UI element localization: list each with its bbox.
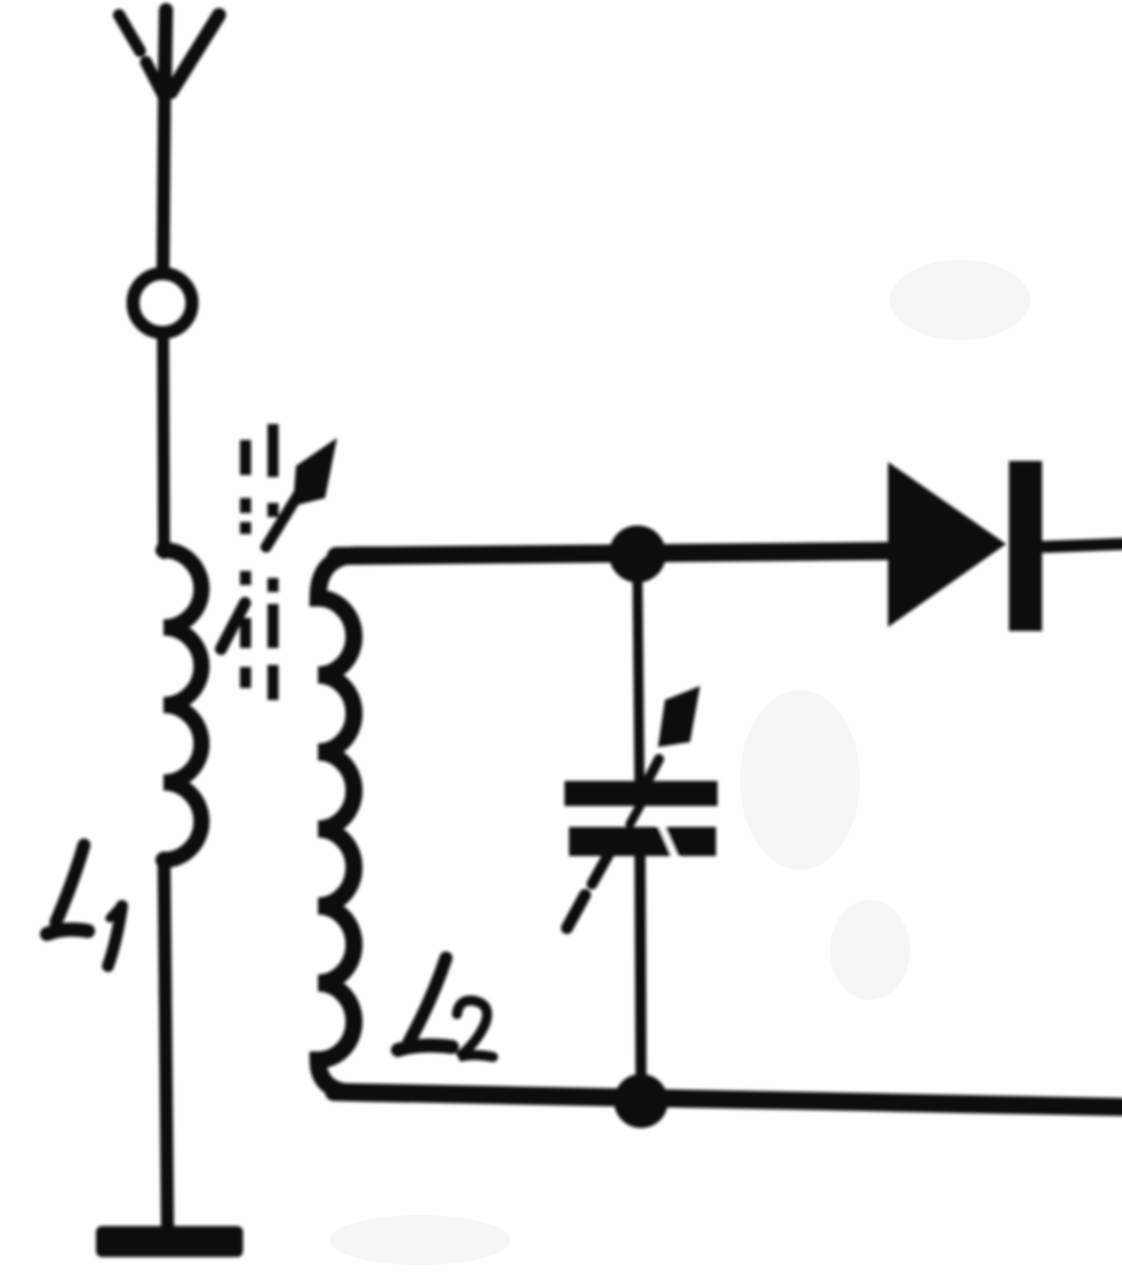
junction node top [609, 526, 666, 583]
wire L1 to ground [164, 858, 168, 1229]
terminal circle [133, 274, 192, 333]
diode VD cathode bar [1009, 461, 1042, 631]
capacitor arrow [567, 686, 700, 928]
coupling core dashed line left [240, 440, 251, 688]
coupling core dashed line right [268, 424, 279, 700]
coupling arrow [221, 438, 337, 649]
inductor L1 [164, 550, 202, 860]
capacitor C bottom plate [569, 827, 716, 856]
scratch on capacitor bottom plate [661, 825, 676, 859]
bottom rail [334, 1092, 1122, 1107]
junction node bottom [614, 1074, 668, 1128]
inductor L2 [318, 555, 408, 1094]
capacitor C top plate [565, 781, 718, 806]
antenna [119, 10, 219, 96]
wire node to capacitor [638, 578, 640, 783]
label L2 [398, 958, 493, 1057]
ground [96, 1226, 243, 1257]
wire antenna to terminal [163, 90, 165, 271]
wire terminal to L1 [163, 336, 164, 553]
faint scan smudges [330, 260, 1030, 1265]
wire capacitor to bottom node [640, 854, 641, 1078]
diode VD triangle [888, 462, 1006, 627]
top rail left (L2 to diode) [336, 551, 889, 556]
label L1 [47, 845, 122, 966]
wire diode to right edge [1041, 544, 1122, 547]
